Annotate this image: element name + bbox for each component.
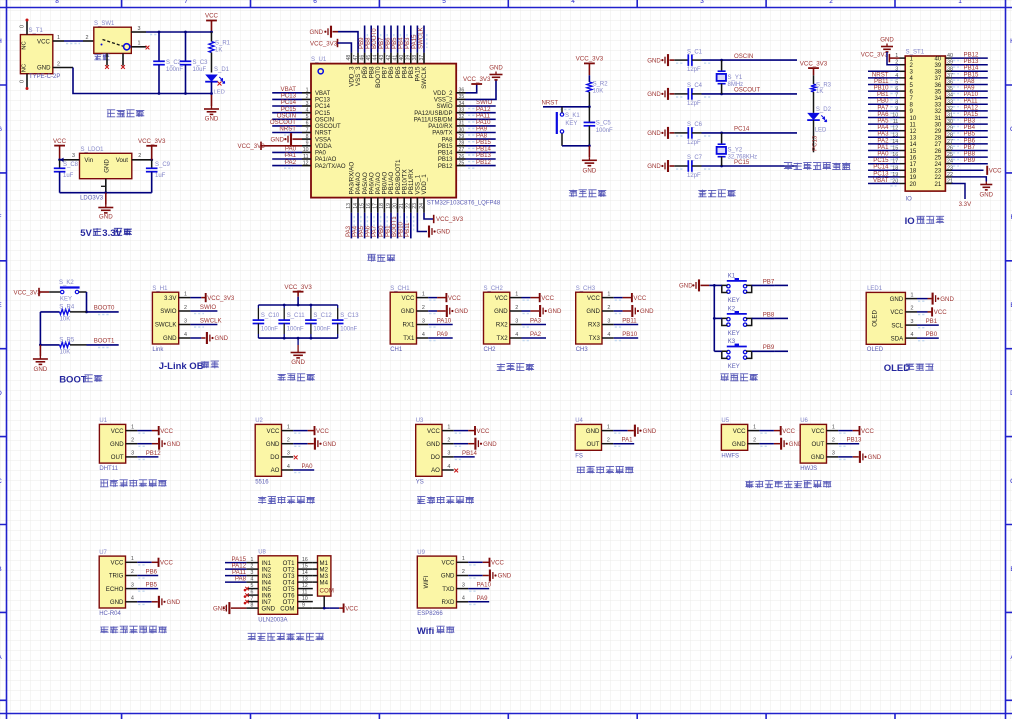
svg-text:OLED: OLED xyxy=(872,310,879,327)
svg-text:GND: GND xyxy=(586,308,600,315)
svg-text:20: 20 xyxy=(392,203,398,209)
svg-text:1: 1 xyxy=(447,424,450,430)
svg-text:26: 26 xyxy=(459,154,465,160)
svg-text:VCC_3V3: VCC_3V3 xyxy=(576,56,604,63)
svg-text:VCC: VCC xyxy=(491,560,504,567)
svg-text:2: 2 xyxy=(251,564,254,570)
svg-text:39: 39 xyxy=(406,55,412,61)
svg-text:VCC: VCC xyxy=(427,428,440,435)
svg-text:PA8: PA8 xyxy=(235,575,247,582)
svg-text:S_R4: S_R4 xyxy=(59,304,75,310)
svg-text:PA2: PA2 xyxy=(530,331,542,338)
svg-text:S_CH1: S_CH1 xyxy=(390,286,410,292)
svg-text:S_T1: S_T1 xyxy=(29,28,44,34)
svg-text:OLED: OLED xyxy=(867,347,884,353)
svg-text:PB5: PB5 xyxy=(146,582,158,589)
svg-text:PA9: PA9 xyxy=(437,331,449,338)
svg-text:10uF: 10uF xyxy=(193,67,207,73)
svg-text:2: 2 xyxy=(86,35,89,41)
svg-text:RXD: RXD xyxy=(442,599,455,606)
svg-text:12pF: 12pF xyxy=(687,101,701,107)
svg-text:3: 3 xyxy=(251,570,254,576)
svg-text:SWCLK: SWCLK xyxy=(417,27,424,49)
svg-text:SCL: SCL xyxy=(891,322,903,329)
net PA3 at S_CH2.3 xyxy=(522,318,547,328)
sensor U4 FS wind speed xyxy=(575,418,613,459)
svg-text:5: 5 xyxy=(442,0,446,5)
svg-text:AO: AO xyxy=(431,467,440,474)
svg-text:OLED: OLED xyxy=(884,363,911,374)
svg-text:GND: GND xyxy=(489,65,503,72)
svg-text:GND: GND xyxy=(868,454,882,461)
pushbutton S_K1 KEY xyxy=(557,107,581,146)
title 晶振电路 xyxy=(698,190,735,198)
svg-text:VBAT: VBAT xyxy=(315,91,331,97)
svg-text:1: 1 xyxy=(832,424,835,430)
svg-text:GND: GND xyxy=(940,296,954,303)
title 复位电路 xyxy=(569,190,606,198)
svg-text:3: 3 xyxy=(72,153,75,159)
U2 pin wires xyxy=(293,426,337,473)
title J-Link OB接口 xyxy=(159,361,219,372)
power flag VCC_3V3 (ldo) xyxy=(138,138,166,160)
svg-text:47: 47 xyxy=(353,55,359,61)
svg-text:GND: GND xyxy=(262,605,276,612)
regulator S_LDO1 LDO3V3 xyxy=(80,147,132,201)
IC U8 ULN2003A xyxy=(246,550,312,624)
capacitor S_C12 100nF xyxy=(305,305,332,338)
svg-text:S_C3: S_C3 xyxy=(193,60,209,66)
svg-text:GND: GND xyxy=(426,441,440,448)
svg-text:S_C4: S_C4 xyxy=(687,83,703,89)
svg-text:AO: AO xyxy=(271,467,280,474)
svg-text:3: 3 xyxy=(832,451,835,457)
GND port at U1.VSS_3 pin47 xyxy=(309,26,358,53)
svg-text:10: 10 xyxy=(303,147,309,153)
svg-text:GND: GND xyxy=(291,359,305,366)
svg-text:VDD_2: VDD_2 xyxy=(433,91,453,97)
svg-text:3: 3 xyxy=(287,451,290,457)
svg-text:GND: GND xyxy=(34,366,48,373)
U9 pin wires xyxy=(468,558,512,605)
svg-text:KEY: KEY xyxy=(565,121,577,127)
svg-text:2: 2 xyxy=(57,62,60,68)
svg-text:6: 6 xyxy=(306,121,309,127)
svg-text:VCC: VCC xyxy=(587,295,600,302)
svg-text:24: 24 xyxy=(419,203,425,209)
svg-text:2: 2 xyxy=(306,94,309,100)
svg-text:14: 14 xyxy=(302,570,308,576)
svg-text:2: 2 xyxy=(422,305,425,311)
svg-text:LED1: LED1 xyxy=(867,286,883,292)
svg-text:GND: GND xyxy=(103,159,110,173)
title 超声波测距模块 xyxy=(100,626,167,634)
svg-text:SDA: SDA xyxy=(891,335,904,342)
connector S_CH1 xyxy=(390,286,428,353)
svg-text:28: 28 xyxy=(459,141,465,147)
capacitor S_C1 12pF / net OSCIN xyxy=(647,49,797,73)
svg-text:100nF: 100nF xyxy=(340,327,357,333)
title 5V转3.3V电路 xyxy=(80,228,132,239)
svg-text:11: 11 xyxy=(303,154,308,160)
svg-text:FS: FS xyxy=(575,453,583,459)
title BOOT电路 xyxy=(59,375,102,386)
svg-text:S_CH3: S_CH3 xyxy=(576,286,596,292)
svg-text:PC15: PC15 xyxy=(315,111,331,117)
svg-text:1: 1 xyxy=(462,556,465,562)
svg-text:3: 3 xyxy=(607,318,610,324)
connector S_T1 TYPE-C-2P xyxy=(20,19,61,91)
VCC port S_CH2.1 xyxy=(522,293,555,302)
svg-text:S_CH2: S_CH2 xyxy=(484,286,504,292)
U6 pin wires xyxy=(838,426,882,463)
filter bottom rail xyxy=(258,337,337,340)
svg-text:D: D xyxy=(0,390,2,397)
svg-text:4: 4 xyxy=(306,108,309,114)
svg-text:GND: GND xyxy=(441,573,455,580)
svg-text:12pF: 12pF xyxy=(687,173,701,179)
net label NRST wire xyxy=(542,100,591,110)
svg-text:KEY: KEY xyxy=(60,297,72,303)
svg-text:NC: NC xyxy=(22,64,28,72)
svg-text:S_R1: S_R1 xyxy=(215,41,231,47)
svg-text:Link: Link xyxy=(152,347,164,353)
svg-text:VCC_3V3: VCC_3V3 xyxy=(14,289,42,296)
svg-text:GND: GND xyxy=(163,335,177,342)
svg-text:VCC: VCC xyxy=(812,428,825,435)
svg-text:1: 1 xyxy=(753,424,756,430)
svg-text:B: B xyxy=(0,566,2,573)
svg-text:1: 1 xyxy=(131,556,134,562)
svg-text:20: 20 xyxy=(910,181,917,188)
svg-text:SWCLK: SWCLK xyxy=(421,66,428,89)
svg-text:2: 2 xyxy=(131,569,134,575)
svg-text:6: 6 xyxy=(251,590,254,596)
svg-text:S_Y2: S_Y2 xyxy=(728,148,743,154)
svg-text:100nF: 100nF xyxy=(287,327,304,333)
resistor S_R5 10K / net BOOT1 xyxy=(40,337,118,355)
power flag VCC (ldo) xyxy=(53,138,67,160)
svg-text:S_D2: S_D2 xyxy=(816,107,832,113)
header left wires/net labels xyxy=(868,53,905,186)
svg-text:U8: U8 xyxy=(258,550,266,556)
svg-text:3.3V: 3.3V xyxy=(164,295,177,302)
svg-text:PC13: PC13 xyxy=(315,98,331,104)
svg-text:Vin: Vin xyxy=(84,157,93,164)
svg-text:12pF: 12pF xyxy=(687,140,701,146)
svg-text:VCC: VCC xyxy=(316,428,329,435)
svg-text:S_C7: S_C7 xyxy=(687,155,703,161)
svg-text:GND: GND xyxy=(167,441,181,448)
svg-text:S_SW1: S_SW1 xyxy=(94,21,115,27)
svg-text:GND: GND xyxy=(583,167,597,174)
svg-text:U4: U4 xyxy=(575,418,583,424)
svg-text:36: 36 xyxy=(459,88,465,94)
VCC port at LED1.2 xyxy=(917,307,947,316)
svg-text:100nF: 100nF xyxy=(596,128,613,134)
svg-text:S_Y1: S_Y1 xyxy=(728,75,743,81)
pin header S_ST1 IO expansion xyxy=(905,48,945,202)
svg-text:S_R3: S_R3 xyxy=(816,83,832,89)
ground GND (ldo) xyxy=(98,193,113,221)
svg-text:VCC: VCC xyxy=(402,295,415,302)
svg-text:OSCIN: OSCIN xyxy=(315,118,334,124)
sensor U2 5516 photoresistor xyxy=(255,418,293,485)
svg-text:VSSA: VSSA xyxy=(315,137,331,143)
svg-text:S_K2: S_K2 xyxy=(59,280,74,286)
GND at header pin2 xyxy=(880,37,899,65)
svg-text:PA0: PA0 xyxy=(302,463,314,470)
svg-text:5: 5 xyxy=(306,114,309,120)
svg-text:VCC: VCC xyxy=(442,560,455,567)
svg-text:VCC: VCC xyxy=(267,428,280,435)
svg-text:PB11: PB11 xyxy=(622,318,637,325)
svg-text:LED: LED xyxy=(214,90,225,96)
svg-text:NRST: NRST xyxy=(315,131,332,137)
svg-text:41: 41 xyxy=(392,55,398,61)
title Wifi模块 xyxy=(417,626,455,637)
svg-text:PB10: PB10 xyxy=(622,331,638,338)
sensor U1 DHT11 xyxy=(99,418,137,472)
svg-text:100nF: 100nF xyxy=(166,67,183,73)
svg-text:VCC: VCC xyxy=(160,428,173,435)
svg-text:PC13: PC13 xyxy=(812,135,819,151)
svg-text:VSS_2: VSS_2 xyxy=(434,98,453,104)
svg-text:48: 48 xyxy=(346,55,352,61)
svg-text:7: 7 xyxy=(184,0,188,5)
svg-text:VCC: VCC xyxy=(890,309,903,316)
svg-text:10K: 10K xyxy=(60,349,71,355)
svg-text:8MHz: 8MHz xyxy=(728,82,744,88)
svg-text:GND: GND xyxy=(586,428,600,435)
svg-text:2: 2 xyxy=(911,306,914,312)
title 光照检测模块 xyxy=(258,496,315,504)
svg-text:45: 45 xyxy=(366,55,372,61)
chip bottom pin wires/net labels xyxy=(345,198,425,239)
svg-text:G: G xyxy=(0,126,2,133)
svg-text:3: 3 xyxy=(306,101,309,107)
svg-text:CH2: CH2 xyxy=(484,347,497,353)
svg-text:100nF: 100nF xyxy=(313,327,330,333)
title 按键电路 xyxy=(721,374,758,382)
svg-text:F: F xyxy=(0,214,2,221)
svg-text:2: 2 xyxy=(832,438,835,444)
U5 pin wires xyxy=(759,426,803,450)
svg-text:OUT: OUT xyxy=(587,441,600,448)
svg-text:VCC: VCC xyxy=(205,13,219,20)
svg-text:PB0: PB0 xyxy=(926,331,938,338)
svg-text:32: 32 xyxy=(459,114,465,120)
capacitor S_C5 100nF xyxy=(584,107,613,146)
svg-text:GND: GND xyxy=(483,441,497,448)
svg-text:PA10/RX: PA10/RX xyxy=(428,124,452,130)
svg-text:31: 31 xyxy=(459,121,465,127)
svg-text:S_ST1: S_ST1 xyxy=(906,48,925,55)
wire K1 bottom to C5 bottom xyxy=(562,144,591,147)
svg-text:VCC_3V3: VCC_3V3 xyxy=(138,138,166,145)
svg-text:11: 11 xyxy=(302,590,307,596)
net PB0 at LED1.4 SDA xyxy=(917,331,939,341)
wifi module U9 ESP8266 xyxy=(417,550,468,617)
svg-text:S_C10: S_C10 xyxy=(261,313,280,319)
resistor S_R3 1K xyxy=(811,83,832,113)
svg-text:J-Link OB: J-Link OB xyxy=(159,361,204,372)
svg-text:SWCLK: SWCLK xyxy=(155,322,177,329)
net PB11 at S_CH3.3 xyxy=(614,318,639,328)
svg-text:VCC: VCC xyxy=(782,428,795,435)
svg-text:PA9: PA9 xyxy=(477,595,489,602)
svg-text:VCC: VCC xyxy=(345,605,358,612)
wire T1.VCC to SW1.2 xyxy=(53,35,94,44)
svg-text:GND: GND xyxy=(548,308,562,315)
svg-text:15: 15 xyxy=(302,564,308,570)
svg-text:PB14: PB14 xyxy=(438,151,453,157)
svg-text:NRST: NRST xyxy=(542,100,559,107)
svg-text:4: 4 xyxy=(131,596,134,602)
svg-text:NRST: NRST xyxy=(279,126,296,133)
svg-text:VCC_3V3: VCC_3V3 xyxy=(436,216,464,223)
svg-text:S_R5: S_R5 xyxy=(59,337,75,343)
svg-text:2: 2 xyxy=(447,438,450,444)
svg-text:1: 1 xyxy=(57,35,60,41)
svg-text:PA2/TX/AO: PA2/TX/AO xyxy=(315,164,346,170)
svg-text:U6: U6 xyxy=(800,418,808,424)
header right wires/net labels xyxy=(945,52,987,185)
svg-text:Wifi: Wifi xyxy=(417,626,434,637)
svg-text:1: 1 xyxy=(515,291,518,297)
title OLED显示屏 xyxy=(884,363,934,374)
svg-text:KEY: KEY xyxy=(728,364,740,370)
svg-text:U1: U1 xyxy=(99,418,107,424)
svg-text:VCC: VCC xyxy=(111,428,124,435)
svg-text:GND: GND xyxy=(110,599,124,606)
svg-text:37: 37 xyxy=(419,55,425,61)
svg-text:TX2: TX2 xyxy=(497,335,509,342)
ground GND (power) xyxy=(204,92,219,122)
svg-text:RX2: RX2 xyxy=(496,322,508,329)
switch S_SW1 xyxy=(94,21,150,69)
svg-text:29: 29 xyxy=(459,134,465,140)
net 3.3V at header pin21 xyxy=(952,184,973,209)
pushbutton K2 KEY (net PB8) xyxy=(714,307,788,337)
svg-text:3.3V: 3.3V xyxy=(959,201,972,208)
U4 pin wires xyxy=(613,425,657,447)
svg-text:4: 4 xyxy=(447,464,450,470)
svg-text:CH3: CH3 xyxy=(576,347,589,353)
svg-text:TX1: TX1 xyxy=(403,335,415,342)
svg-text:GND: GND xyxy=(643,428,657,435)
title 分离式红外开关模块 xyxy=(745,481,831,489)
wire VCC to LDO.Vin pin3 xyxy=(58,153,79,162)
svg-text:0: 0 xyxy=(20,80,26,83)
pushbutton S_K2 KEY xyxy=(49,280,86,303)
svg-text:1: 1 xyxy=(287,424,290,430)
svg-text:GND: GND xyxy=(167,599,181,606)
svg-text:8: 8 xyxy=(306,134,309,140)
svg-text:SWIO: SWIO xyxy=(160,308,177,315)
svg-text:GND: GND xyxy=(811,454,825,461)
wire boot left rail xyxy=(39,312,42,346)
svg-text:OSCOUT: OSCOUT xyxy=(315,124,341,130)
svg-text:VCC: VCC xyxy=(733,428,746,435)
capacitor S_C13 100nF xyxy=(332,305,359,338)
svg-text:PB12: PB12 xyxy=(146,450,162,457)
svg-text:27: 27 xyxy=(459,147,465,153)
svg-text:PC14: PC14 xyxy=(734,126,750,133)
GND port S_CH3.2 xyxy=(614,305,654,317)
svg-text:16: 16 xyxy=(366,203,372,209)
svg-text:32.768KHz: 32.768KHz xyxy=(728,155,758,161)
svg-text:PB9: PB9 xyxy=(964,157,976,164)
svg-text:100nF: 100nF xyxy=(261,327,278,333)
svg-text:GND: GND xyxy=(99,214,113,221)
connector S_H1 J-Link xyxy=(152,286,190,353)
svg-text:S_C6: S_C6 xyxy=(687,122,703,128)
svg-text:TX3: TX3 xyxy=(589,335,601,342)
svg-text:VCC_3V3: VCC_3V3 xyxy=(310,40,338,47)
power flag VCC_3V3 (reset) xyxy=(576,56,604,82)
svg-text:23: 23 xyxy=(412,203,418,209)
display module LED1 OLED xyxy=(866,286,917,353)
svg-text:S_D1: S_D1 xyxy=(214,67,230,73)
svg-text:S_H1: S_H1 xyxy=(152,286,168,292)
svg-text:S_C1: S_C1 xyxy=(687,49,703,55)
svg-text:GND: GND xyxy=(647,163,661,170)
svg-text:GND: GND xyxy=(890,296,904,303)
GND port at U1.VSSA pin8 xyxy=(270,133,302,145)
pushbutton K1 KEY (net PB7) xyxy=(714,274,788,304)
svg-text:S_C5: S_C5 xyxy=(596,121,612,127)
svg-text:IO: IO xyxy=(905,216,915,227)
GND port S_CH1.2 xyxy=(428,305,468,317)
ground GND (reset) xyxy=(582,146,597,175)
wire SW1.3 to VCC node xyxy=(146,32,212,35)
svg-text:2: 2 xyxy=(462,569,465,575)
wire LDO ground rail xyxy=(60,179,152,194)
svg-text:1: 1 xyxy=(958,0,962,5)
svg-text:S_LDO1: S_LDO1 xyxy=(81,147,105,153)
svg-text:3.3V: 3.3V xyxy=(102,228,122,239)
svg-text:7: 7 xyxy=(251,596,254,602)
svg-text:TYPE-C-2P: TYPE-C-2P xyxy=(29,74,60,80)
svg-text:0: 0 xyxy=(20,25,26,28)
power flag VCC_3V3 (filter) xyxy=(284,284,312,305)
svg-text:S_C13: S_C13 xyxy=(340,313,359,319)
GND port at U1.VSS_1 pin23 xyxy=(417,213,450,238)
svg-text:3: 3 xyxy=(131,582,134,588)
svg-text:3: 3 xyxy=(184,318,187,324)
svg-text:2: 2 xyxy=(607,305,610,311)
svg-text:HWJS: HWJS xyxy=(800,466,817,472)
svg-text:VCC: VCC xyxy=(160,560,173,567)
svg-text:GND: GND xyxy=(980,192,994,199)
svg-text:S_C11: S_C11 xyxy=(287,313,306,319)
title 电源电路 xyxy=(107,110,144,117)
svg-text:GND: GND xyxy=(270,136,284,143)
svg-text:LED: LED xyxy=(815,127,827,133)
svg-text:S_C2: S_C2 xyxy=(166,60,182,66)
svg-text:K2: K2 xyxy=(728,307,736,313)
svg-text:15: 15 xyxy=(359,203,365,209)
capacitor S_C2 100nF xyxy=(153,31,183,95)
svg-text:1K: 1K xyxy=(215,48,222,54)
svg-text:U3: U3 xyxy=(416,418,424,424)
net PA2 at S_CH2.4 xyxy=(522,331,547,341)
svg-text:1: 1 xyxy=(306,88,309,94)
svg-text:PA12/USB/DP: PA12/USB/DP xyxy=(414,111,452,117)
svg-text:PB8: PB8 xyxy=(763,311,775,318)
svg-text:2: 2 xyxy=(184,305,187,311)
